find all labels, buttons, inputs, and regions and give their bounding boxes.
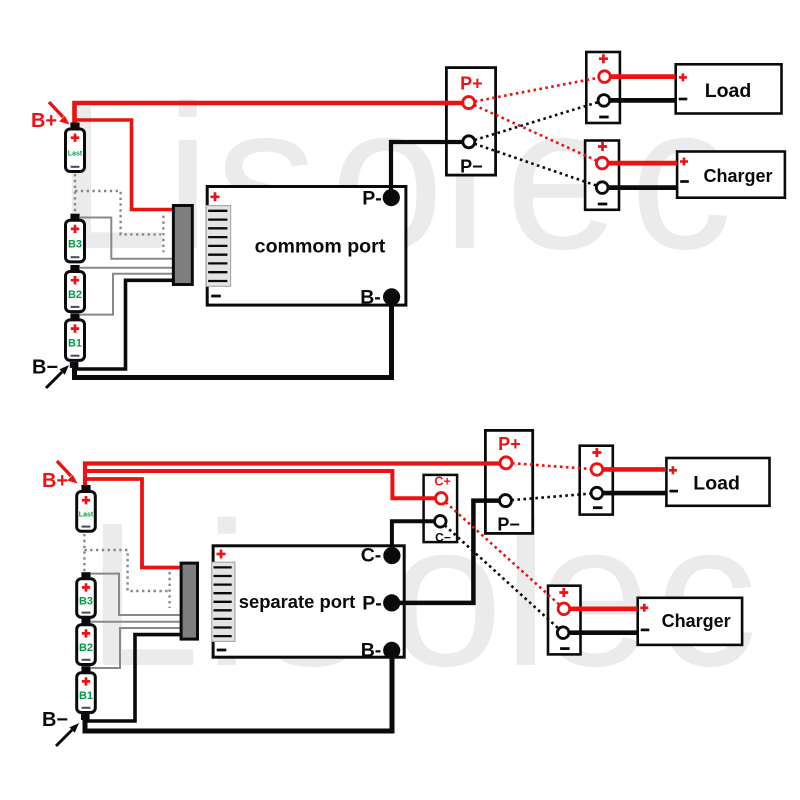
load - ring [598, 95, 610, 107]
wire red balance branch to connector [73, 120, 174, 210]
C- ring terminal TB5 [435, 516, 447, 528]
wire B+ red rail to P+ [75, 103, 463, 126]
P- ring terminal TB1 [463, 136, 475, 148]
label + load box [679, 73, 687, 81]
svg-text:Charger: Charger [662, 611, 731, 631]
battery B2 (diagram 1) [66, 265, 85, 312]
P- pad dot on board U1 [383, 189, 400, 206]
C- pad dot on board U2 [383, 547, 400, 564]
B- pad dot on board U2 [383, 642, 400, 659]
terminal block TB1 P+/P- [446, 68, 495, 176]
wire load - stub black 2 [603, 491, 666, 496]
label + load terminal [599, 54, 608, 63]
charger box 2 [638, 598, 742, 645]
svg-text:separate port: separate port [239, 591, 356, 612]
svg-text:C−: C− [435, 530, 451, 544]
svg-text:B+: B+ [31, 110, 57, 132]
wire balance B2 sense 2 (gray) [91, 621, 181, 623]
balance connector J1 [173, 206, 192, 285]
label + load box 2 [669, 466, 677, 474]
dotted P- to load - 2 [506, 493, 597, 501]
battery B1 bottom terminal nub [70, 362, 79, 368]
svg-text:C+: C+ [434, 474, 450, 488]
label + charger terminal 2 [559, 588, 568, 597]
dotted P- to charger - [469, 142, 602, 188]
svg-text:B-: B- [360, 287, 381, 309]
svg-text:P−: P− [460, 156, 483, 176]
dotted P+ to load + 2 [506, 463, 597, 470]
svg-text:P+: P+ [498, 434, 521, 454]
battery Last (top cell, diagram 2) [77, 485, 96, 531]
wire red balance branch to connector 2 [84, 479, 181, 568]
dotted more-cells link 2 [83, 534, 85, 575]
svg-text:P-: P- [362, 593, 382, 615]
label + charger terminal [598, 142, 607, 151]
wire B- rail 2 battery to board [85, 651, 392, 731]
svg-text:Load: Load [705, 80, 752, 102]
svg-text:P−: P− [497, 515, 520, 535]
svg-text:B1: B1 [79, 690, 93, 702]
wire B- rail battery to board [75, 297, 392, 378]
P+ ring terminal TB1 [463, 97, 475, 109]
load + ring [599, 71, 611, 83]
wire charger - stub black [609, 185, 678, 190]
battery B2 (diagram 2) [77, 618, 96, 664]
wire charger - stub black 2 [570, 630, 638, 635]
balance pin strip on board U1 [206, 206, 230, 287]
wire P- board to TB4 [392, 501, 499, 603]
battery B3 (diagram 2) [77, 572, 96, 617]
dotted P+ to load + [469, 77, 605, 103]
svg-text:P+: P+ [460, 74, 483, 94]
wire balance B1 sense (gray) [80, 274, 174, 315]
arrow to B+ terminal [49, 102, 63, 117]
dotted C+ to charger + 2 [441, 498, 564, 609]
charger box 1 [677, 152, 785, 198]
label - load terminal 2 [593, 506, 603, 509]
arrow to B- terminal [46, 372, 62, 388]
wire B+ lower red rail to C+ [85, 471, 435, 498]
label + load terminal 2 [592, 448, 601, 457]
label - on board U1 [211, 295, 221, 298]
wire balance B2 sense (gray) [80, 267, 174, 269]
C+ ring terminal TB5 [435, 493, 447, 505]
load terminal block TB2 [586, 52, 620, 123]
load terminal block TB6 [580, 446, 613, 515]
svg-text:B2: B2 [79, 642, 93, 654]
svg-text:B2: B2 [68, 289, 82, 301]
wire balance B3 sense (gray) [80, 218, 174, 259]
dotted P- to load - [469, 100, 604, 141]
battery B1 (diagram 1) [66, 313, 85, 360]
dotted connector stub 1 [162, 216, 164, 253]
charger terminal block TB3 [585, 141, 619, 210]
balance pin strip on board U2 [212, 562, 235, 641]
dotted P+ to charger + [469, 103, 603, 164]
wire P- board to terminal block [391, 142, 462, 198]
label - load terminal [599, 116, 609, 119]
svg-text:B+: B+ [42, 470, 68, 492]
battery B1 (diagram 2) [77, 666, 96, 712]
label - load box [679, 98, 688, 101]
wire C- board to TB5 [392, 521, 435, 553]
charger - ring [596, 182, 608, 194]
terminal block TB4 P+/P- [485, 430, 532, 533]
load box 2 [666, 458, 769, 506]
wire B+ upper red rail to P+ [85, 464, 499, 491]
P+ ring terminal TB4 [500, 457, 512, 469]
label + charger box [680, 158, 688, 166]
wire balance B- sense 2 (black) [85, 635, 181, 721]
label - charger box [680, 180, 689, 183]
svg-text:Load: Load [693, 472, 740, 494]
label - charger terminal [598, 203, 608, 206]
wire load + stub red [610, 74, 676, 79]
label + on board U2 [217, 550, 226, 559]
arrow to B+ terminal 2 [57, 461, 71, 476]
svg-text:Last: Last [68, 150, 83, 157]
terminal block TB5 C+/C- [424, 475, 458, 542]
load - ring 2 [591, 487, 603, 499]
wire balance B3 sense 2 (gray) [91, 574, 181, 615]
svg-text:B3: B3 [79, 596, 93, 608]
charger terminal block TB7 [548, 586, 581, 655]
dotted more-cells branch 1 [75, 191, 161, 234]
label + on board U1 [211, 192, 220, 201]
load box 1 [676, 64, 782, 113]
dotted C- to charger - 2 [440, 521, 563, 632]
svg-text:C-: C- [361, 545, 382, 567]
wire charger + stub red 2 [571, 606, 638, 611]
load + ring 2 [591, 464, 603, 476]
dotted more-cells link 1 [74, 174, 76, 216]
svg-text:Charger: Charger [703, 166, 772, 186]
dotted more-cells branch 2 [84, 550, 169, 591]
charger + ring 2 [558, 603, 570, 615]
battery Last (top cell, diagram 1) [66, 123, 85, 172]
charger + ring [596, 157, 608, 169]
wire charger + stub red [609, 161, 678, 166]
label + charger box 2 [640, 604, 648, 612]
BMS board U2 (separate port) [213, 546, 404, 657]
svg-text:Last: Last [79, 511, 94, 518]
label - on board U2 [217, 649, 227, 652]
wire balance B1 sense 2 (gray) [91, 628, 181, 668]
svg-text:B−: B− [32, 357, 58, 379]
svg-text:B1: B1 [68, 338, 82, 350]
svg-text:B−: B− [42, 709, 68, 731]
B- pad dot on board U1 [383, 288, 400, 305]
balance connector J2 [181, 563, 197, 639]
arrow to B- terminal 2 [56, 730, 72, 746]
P- ring terminal TB4 [500, 495, 512, 507]
svg-text:P-: P- [362, 187, 382, 209]
battery B1 bottom terminal nub 2 [81, 714, 90, 720]
wire load - stub black [610, 98, 676, 103]
svg-text:commom port: commom port [255, 236, 386, 258]
P- pad dot on board U2 [383, 594, 400, 611]
wire balance B- sense (black) [75, 280, 175, 369]
dotted connector stub 2 [168, 572, 170, 608]
BMS board U1 (common port) [207, 187, 406, 306]
battery B3 (diagram 1) [66, 214, 85, 262]
wire load + stub red 2 [603, 467, 666, 472]
charger - ring 2 [557, 627, 569, 639]
svg-text:B3: B3 [68, 239, 82, 251]
svg-text:B-: B- [361, 640, 382, 662]
label - load box 2 [669, 490, 678, 493]
label - charger terminal 2 [560, 647, 570, 650]
label - charger box 2 [641, 629, 650, 632]
